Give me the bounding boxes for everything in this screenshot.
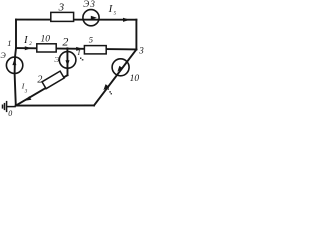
wire: middle horizontal from node 1 to node 3 bbox=[16, 48, 136, 49]
wire: right vertical from top-right corner down to node 3 bbox=[135, 20, 137, 50]
arrowhead inside top source bbox=[91, 16, 97, 20]
wire: left diagonal from below middle source to node 0 bbox=[16, 75, 68, 105]
current arrow I5 on top wire bbox=[123, 18, 130, 22]
resistor R diagonal (value 2) bbox=[42, 71, 64, 89]
svg-text:5: 5 bbox=[89, 35, 93, 45]
resistor R middle-left (value 10) bbox=[37, 44, 56, 52]
current arrow on middle wire before R5 bbox=[76, 47, 82, 51]
svg-text:2: 2 bbox=[62, 35, 68, 49]
svg-text:1: 1 bbox=[7, 38, 11, 48]
svg-text:2: 2 bbox=[37, 74, 42, 85]
arrowhead inside middle source bbox=[66, 60, 70, 66]
ground at node 0 bbox=[3, 101, 16, 112]
wire: left vertical from top-left corner through node 1 and source to node 0 bbox=[15, 20, 16, 106]
wire: top horizontal from node 1 riser to top-right corner bbox=[16, 19, 136, 21]
arrowhead inside right source bbox=[117, 66, 122, 72]
arrowhead inside left source bbox=[12, 59, 16, 65]
source right (circle on diagonal, arrow down-left) bbox=[112, 59, 129, 76]
wire: node 2 drop to middle source and down bbox=[66, 48, 68, 75]
svg-text:10: 10 bbox=[130, 74, 140, 84]
svg-text:Э: Э bbox=[54, 55, 59, 64]
svg-text:3: 3 bbox=[58, 2, 65, 14]
current arrow I2 on middle wire bbox=[25, 46, 31, 50]
svg-text:0: 0 bbox=[8, 109, 12, 117]
current arrow I6 on right diagonal bbox=[103, 84, 109, 90]
source middle (circle, arrow down) bbox=[59, 52, 76, 69]
resistor R top (value 3) bbox=[51, 12, 74, 21]
wire: bottom horizontal from node 0 to diagonal bend bbox=[16, 104, 94, 106]
current arrow on left diagonal bbox=[25, 96, 31, 101]
source left (circle, arrow up) bbox=[6, 57, 22, 73]
wire: right diagonal from node 3 through source to bottom bend bbox=[94, 49, 136, 105]
resistor R middle-right (value 5) bbox=[84, 46, 106, 54]
svg-text:3: 3 bbox=[138, 45, 144, 55]
svg-text:10: 10 bbox=[41, 34, 51, 44]
source top (circle, arrow right) bbox=[83, 10, 99, 26]
svg-text:Э3: Э3 bbox=[83, 0, 96, 9]
svg-text:Э: Э bbox=[1, 51, 7, 60]
